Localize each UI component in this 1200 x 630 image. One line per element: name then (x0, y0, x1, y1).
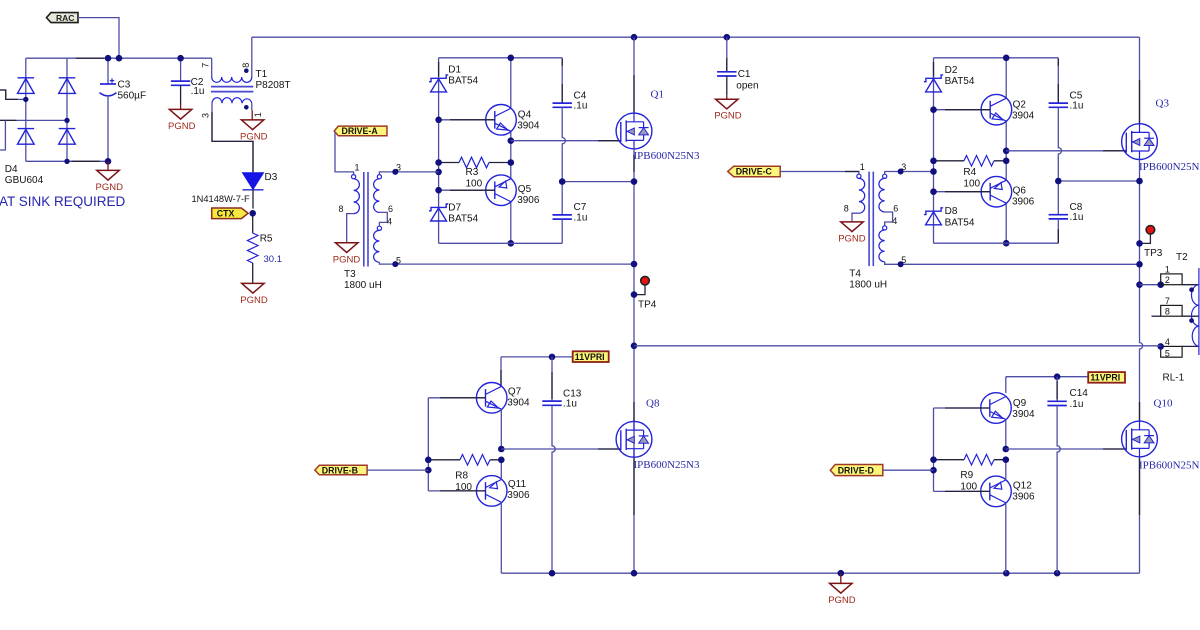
svg-text:PGND: PGND (333, 254, 361, 265)
svg-text:2: 2 (1165, 275, 1170, 285)
node 11VPRI rail tee (631, 343, 638, 350)
transistor Q6 3906 (981, 176, 1012, 207)
svg-text:BAT54: BAT54 (448, 214, 478, 225)
svg-text:T1: T1 (256, 69, 268, 80)
resistor R8 100 (428, 459, 501, 461)
svg-text:RL-1: RL-1 (1163, 373, 1185, 384)
wire block left column (933, 58, 935, 243)
wire bridge right column (66, 58, 68, 161)
resistor R4 100 (934, 160, 1007, 162)
svg-text:AT SINK REQUIRED: AT SINK REQUIRED (0, 194, 126, 209)
svg-text:.1u: .1u (563, 399, 577, 410)
svg-text:R5: R5 (260, 234, 273, 245)
wire Q11 emitter up / collector down (501, 460, 1139, 573)
node C13 top (549, 354, 556, 361)
node T2 pin2 wire (1136, 281, 1143, 288)
node TP3 (1136, 240, 1143, 247)
wire top rail left (bridge to T1 pin7) (26, 57, 212, 59)
svg-text:3906: 3906 (517, 195, 540, 206)
wire T4 pin3 to block (885, 172, 934, 175)
resistor R5 30.1 (252, 217, 254, 234)
diode D3 1N4148 (243, 173, 264, 190)
svg-text:30.1: 30.1 (264, 254, 283, 265)
svg-text:.1u: .1u (1070, 399, 1084, 410)
wire RAC to top rail (78, 18, 119, 59)
node R8 right (498, 457, 505, 464)
wire T3 pin3 to block (379, 172, 438, 175)
svg-text:T4: T4 (849, 269, 861, 280)
wire block top rail (934, 57, 1059, 59)
node R9 left (930, 456, 937, 463)
port tag RAC (47, 13, 79, 23)
wire T4 pin5 rail to Q3 column (885, 262, 1140, 265)
capacitor C13 .1u column with hop (551, 357, 553, 401)
svg-text:PGND: PGND (838, 234, 866, 245)
svg-text:PGND: PGND (828, 595, 856, 606)
wire T4 pin6-pin4 jog (885, 212, 893, 226)
svg-text:Q11: Q11 (508, 479, 527, 490)
svg-text:4: 4 (387, 216, 392, 226)
svg-text:1: 1 (860, 162, 865, 172)
ground PGND T3 pin8 (336, 243, 358, 253)
wire DRIVE-D (883, 469, 934, 471)
wire Q8 gate rail (501, 448, 620, 450)
ground PGND T1 pin1 (251, 111, 253, 120)
capacitor C4 .1u column with hop (561, 58, 563, 103)
svg-text:.1u: .1u (191, 86, 205, 97)
svg-text:11VPRI: 11VPRI (1090, 373, 1120, 383)
T1 phase dot pin1 (244, 105, 249, 110)
svg-text:8: 8 (241, 63, 251, 68)
node T2 pin4 rail (1157, 343, 1164, 350)
capacitor C7 .1u (553, 215, 572, 219)
wire Q9 emitter down (1005, 419, 1007, 449)
node DRIVE-B tee (425, 467, 432, 474)
svg-text:1N4148W-7-F: 1N4148W-7-F (192, 194, 251, 204)
ground PGND bottom (840, 573, 842, 583)
node C4/C7 column source rail (559, 178, 566, 185)
net tag 11VPRI left (573, 351, 609, 362)
svg-text:PGND: PGND (240, 295, 268, 306)
test point TP4 (634, 285, 645, 294)
ground PGND T4 pin8 (841, 222, 863, 232)
net tag CTX (212, 208, 248, 219)
svg-text:Q7: Q7 (508, 387, 522, 398)
node R4 left (930, 158, 937, 165)
diode D8 BAT54 (924, 208, 943, 225)
svg-text:Q4: Q4 (518, 110, 532, 121)
wire DRIVE-A to T3 pin1 (335, 132, 354, 175)
T1 phase dot pin8 (244, 68, 249, 73)
svg-text:3906: 3906 (1012, 492, 1035, 503)
svg-text:PGND: PGND (96, 182, 124, 193)
wire T3 pin8 to ground (347, 214, 354, 243)
svg-text:1: 1 (1165, 265, 1170, 275)
svg-text:7: 7 (1165, 296, 1170, 306)
svg-text:3906: 3906 (507, 490, 530, 501)
node Q4 emitter / gate rail (508, 137, 515, 144)
svg-text:PGND: PGND (168, 121, 196, 132)
svg-text:C14: C14 (1070, 388, 1089, 399)
capacitor C5 .1u column with hop (1057, 58, 1059, 103)
svg-text:C1: C1 (738, 69, 751, 80)
svg-text:.1u: .1u (574, 101, 588, 112)
wire to T2 pin 2 (1140, 284, 1161, 286)
wire AC input middle (0, 119, 67, 121)
node Q7 emitter / gate rail (498, 446, 505, 453)
resistor R3 100 (439, 162, 511, 164)
svg-text:R8: R8 (455, 470, 468, 481)
node Q1 source rail (631, 178, 638, 185)
svg-text:100: 100 (455, 482, 472, 493)
node bottom rail Q8 (631, 570, 638, 577)
wire DRIVE-C to T4 pin1 (780, 172, 859, 175)
wire bridge bottom rail (26, 160, 108, 162)
node T4 pin5 rail (1136, 261, 1143, 268)
net tag DRIVE-C (728, 166, 781, 177)
node top rail RAC (116, 55, 123, 62)
diode D1 BAT54 (429, 75, 448, 92)
wire Q7 collector (500, 357, 502, 387)
wire Q1 drain column (633, 37, 635, 113)
wire T1 pin1 to ground (251, 103, 253, 110)
diode D4c bottom-left (18, 129, 35, 145)
node C14 top (1054, 373, 1061, 380)
mosfet Q1 IPB600N25N3 (616, 113, 652, 149)
node T4 pin3 (898, 169, 904, 175)
wire Q1 source column down (633, 149, 635, 573)
node bottom rail C3 (105, 158, 112, 165)
wire Q10 gate rail (1006, 448, 1126, 450)
svg-text:D8: D8 (945, 206, 958, 217)
svg-text:IPB600N25N3: IPB600N25N3 (634, 150, 701, 162)
node T3 pin5 rail (631, 261, 638, 268)
svg-text:3904: 3904 (517, 121, 540, 132)
svg-text:.1u: .1u (1070, 101, 1084, 112)
test point TP3 (1140, 234, 1151, 243)
svg-text:8: 8 (844, 203, 849, 213)
wire left column (933, 408, 935, 491)
svg-text:T2: T2 (1176, 252, 1188, 263)
svg-text:3904: 3904 (1012, 110, 1035, 121)
wire block left column (438, 58, 440, 244)
svg-text:8: 8 (1165, 307, 1170, 317)
transistor Q11 3906 (476, 476, 507, 507)
ground PGND below bridge (107, 161, 109, 170)
transformer T3 1800uH (352, 175, 356, 179)
wire main top rail (252, 36, 1140, 38)
svg-text:DRIVE-B: DRIVE-B (322, 465, 358, 475)
mosfet Q10 IPB600N25N3 (1139, 402, 1141, 421)
ground PGND below C1 (726, 96, 728, 99)
net tag DRIVE-D (830, 465, 883, 476)
net tag 11VPRI right (1088, 372, 1125, 383)
svg-text:Q10: Q10 (1154, 397, 1173, 409)
node C5/C8 column source rail (1055, 178, 1062, 185)
transistor Q7 3904 (476, 383, 507, 414)
transistor Q4 3904 (486, 105, 517, 136)
capacitor C8 .1u (1049, 215, 1068, 219)
svg-text:CTX: CTX (217, 209, 235, 219)
svg-text:3906: 3906 (1012, 197, 1035, 208)
node block top rail Q4 collector (508, 55, 515, 62)
svg-text:100: 100 (963, 179, 980, 190)
wire bridge left column (25, 58, 27, 161)
wire block right column (1005, 58, 1007, 243)
node Q4 base tee (435, 117, 442, 124)
transistor Q2 3904 (981, 94, 1012, 125)
svg-text:D2: D2 (945, 65, 958, 76)
svg-text:1800 uH: 1800 uH (849, 280, 887, 291)
svg-text:Q12: Q12 (1013, 481, 1032, 492)
node T3 pin3 (392, 169, 398, 175)
svg-text:GBU604: GBU604 (5, 175, 44, 186)
svg-text:100: 100 (960, 482, 977, 493)
node CTX junction (249, 210, 256, 217)
svg-text:5: 5 (396, 255, 401, 265)
transformer T1 P8208T (211, 58, 213, 77)
svg-text:1: 1 (253, 112, 263, 117)
node block bottom rail Q6 collector (1003, 240, 1010, 247)
svg-text:IPB600N25N3: IPB600N25N3 (1139, 459, 1200, 471)
node T3 pin3 row (435, 169, 442, 176)
node top rail C2 (177, 55, 184, 62)
node block bottom rail Q5 collector (508, 240, 515, 247)
svg-text:6: 6 (893, 203, 898, 213)
node R9 right (1003, 456, 1010, 463)
node R8 left (425, 457, 432, 464)
svg-text:7: 7 (201, 63, 211, 68)
wire Q10 source to bottom rail (1139, 457, 1141, 573)
capacitor C3 (polarized) (107, 58, 109, 84)
transistor Q12 3906 (981, 476, 1012, 507)
capacitor C14 .1u column with hop (1056, 377, 1058, 402)
diode D4d bottom-right (59, 129, 76, 145)
mosfet Q3 IPB600N25N3 (1122, 124, 1158, 160)
svg-text:100: 100 (466, 179, 483, 190)
svg-text:3904: 3904 (1012, 409, 1035, 420)
wire Q1 source rail (562, 181, 634, 183)
node bottom rail C13 (549, 570, 556, 577)
svg-text:D7: D7 (448, 202, 461, 213)
node top rail Q1 drain (631, 34, 638, 41)
svg-text:Q8: Q8 (646, 397, 660, 409)
node bridge left mid (23, 97, 28, 102)
ground PGND below C2 (180, 105, 182, 110)
svg-text:Q1: Q1 (651, 89, 664, 101)
node Q2 base tee (930, 106, 937, 113)
net tag DRIVE-A (334, 126, 387, 136)
svg-text:3: 3 (396, 162, 401, 172)
svg-text:BAT54: BAT54 (945, 217, 975, 228)
svg-text:TP3: TP3 (1144, 248, 1163, 259)
svg-text:3904: 3904 (507, 398, 530, 409)
wire DRIVE-B (367, 469, 428, 471)
svg-text:Q2: Q2 (1013, 99, 1027, 110)
svg-text:6: 6 (388, 204, 393, 214)
wire Q3 source column down with hop (1140, 160, 1143, 422)
svg-text:.1u: .1u (1070, 212, 1084, 223)
diode D4b top-right (59, 78, 76, 94)
svg-text:Q3: Q3 (1156, 98, 1170, 110)
diode D4a top-left (18, 78, 35, 94)
svg-text:.1u: .1u (574, 212, 588, 223)
diode D2 BAT54 (924, 75, 943, 92)
svg-text:Q6: Q6 (1013, 186, 1027, 197)
capacitor C2 (180, 58, 182, 81)
node TP4 (631, 291, 638, 298)
svg-text:Q9: Q9 (1013, 398, 1027, 409)
svg-text:T3: T3 (344, 269, 356, 280)
wire Q3 source rail (1058, 180, 1139, 182)
transistor Q5 3906 (486, 175, 517, 206)
svg-text:3: 3 (901, 162, 906, 172)
wire AC input upper (0, 90, 26, 99)
svg-text:DRIVE-C: DRIVE-C (736, 167, 773, 177)
wire Q9 collector (1005, 377, 1007, 393)
svg-text:4: 4 (1165, 337, 1170, 347)
svg-text:4: 4 (892, 216, 897, 226)
T2 pin box 7/8 (1161, 305, 1182, 316)
wire T1 pin3 to D3 (212, 103, 253, 173)
diode D7 BAT54 (429, 204, 448, 221)
svg-text:open: open (736, 81, 758, 92)
svg-text:R9: R9 (960, 470, 973, 481)
svg-text:1: 1 (355, 162, 360, 172)
node bottom rail PGND (838, 570, 845, 577)
mosfet Q8 IPB600N25N3 (633, 402, 635, 421)
wire AC input lower jog (0, 120, 5, 150)
node T3 pin5 (392, 261, 398, 267)
wire T3 pin6-pin4 jog (379, 212, 387, 226)
svg-text:BAT54: BAT54 (945, 76, 975, 87)
wire top row to 11VPRI right (1006, 376, 1088, 378)
svg-text:11VPRI: 11VPRI (575, 352, 605, 362)
svg-text:Q5: Q5 (518, 184, 532, 195)
T2 winding (1182, 285, 1199, 347)
wire block right column (Q4/Q5 collector-emitter) (510, 58, 512, 244)
svg-text:5: 5 (901, 255, 906, 265)
node Q6 base tee (930, 188, 937, 195)
ground PGND below R5 (242, 283, 264, 293)
node bottom rail C14 (1054, 570, 1061, 577)
wire Q3 drain column (1139, 37, 1141, 124)
node bridge right mid (64, 118, 69, 123)
node R4 right (1003, 158, 1010, 165)
wire Q1 gate rail (511, 140, 621, 142)
capacitor C1 (open) (726, 37, 728, 72)
svg-text:8: 8 (339, 204, 344, 214)
node Q5 base tee (435, 187, 442, 194)
svg-text:BAT54: BAT54 (448, 76, 478, 87)
node DRIVE-D tee (930, 467, 937, 474)
T2 pin box 4/5 (1161, 346, 1182, 357)
wire block bottom rail (934, 242, 1059, 244)
svg-text:5: 5 (1165, 348, 1170, 358)
transformer T4 1800uH (857, 174, 861, 178)
node R3 right (508, 159, 515, 166)
wire 11VPRI drain rail (634, 345, 1161, 347)
svg-text:IPB600N25N3: IPB600N25N3 (1139, 161, 1200, 173)
svg-text:C3: C3 (118, 80, 131, 91)
node R3 left (435, 159, 442, 166)
svg-text:DRIVE-D: DRIVE-D (838, 465, 874, 475)
transistor Q9 3904 (981, 393, 1012, 424)
node Q3 source rail (1136, 178, 1143, 185)
svg-text:PGND: PGND (714, 110, 742, 121)
wire T3 pin5 rail to Q1 source column (379, 262, 634, 264)
wire Q3 gate rail (1006, 150, 1126, 152)
svg-text:D1: D1 (448, 64, 461, 75)
svg-text:RAC: RAC (56, 13, 74, 23)
svg-text:D3: D3 (265, 172, 278, 183)
wire block top rail (439, 57, 563, 59)
svg-text:D4: D4 (5, 164, 18, 175)
node T4 pin5 (898, 261, 904, 267)
node T4 pin3 row (930, 168, 937, 175)
node Q2 emitter / gate rail (1003, 148, 1010, 155)
svg-text:1800 uH: 1800 uH (344, 280, 382, 291)
svg-text:R4: R4 (963, 167, 976, 178)
node bridge bottom right col (64, 159, 69, 164)
node top rail C3 (105, 55, 112, 62)
node bottom rail Q12 (1003, 570, 1010, 577)
wire left column (427, 398, 429, 491)
node top rail C1 (724, 34, 731, 41)
svg-text:R3: R3 (466, 167, 479, 178)
resistor R9 100 (934, 459, 1006, 461)
net tag DRIVE-B (315, 465, 367, 475)
svg-text:P8208T: P8208T (256, 80, 291, 91)
wire Q7 emitter down (500, 409, 502, 449)
svg-text:IPB600N25N3: IPB600N25N3 (634, 459, 701, 471)
T2 pin box 1/2 (1161, 274, 1182, 285)
wire block bottom rail (439, 242, 563, 244)
svg-text:560µF: 560µF (118, 90, 147, 101)
svg-text:3: 3 (201, 113, 211, 118)
wire Q12 emitter up / collector down (1005, 460, 1007, 574)
node Q9 emitter / gate rail (1003, 446, 1010, 453)
wire T4 pin8 to ground (852, 213, 859, 222)
svg-text:DRIVE-A: DRIVE-A (342, 126, 379, 136)
svg-text:TP4: TP4 (638, 300, 657, 311)
node block top rail Q2 collector (1003, 55, 1010, 62)
wire top row to 11VPRI (501, 356, 573, 358)
svg-text:PGND: PGND (240, 132, 268, 143)
